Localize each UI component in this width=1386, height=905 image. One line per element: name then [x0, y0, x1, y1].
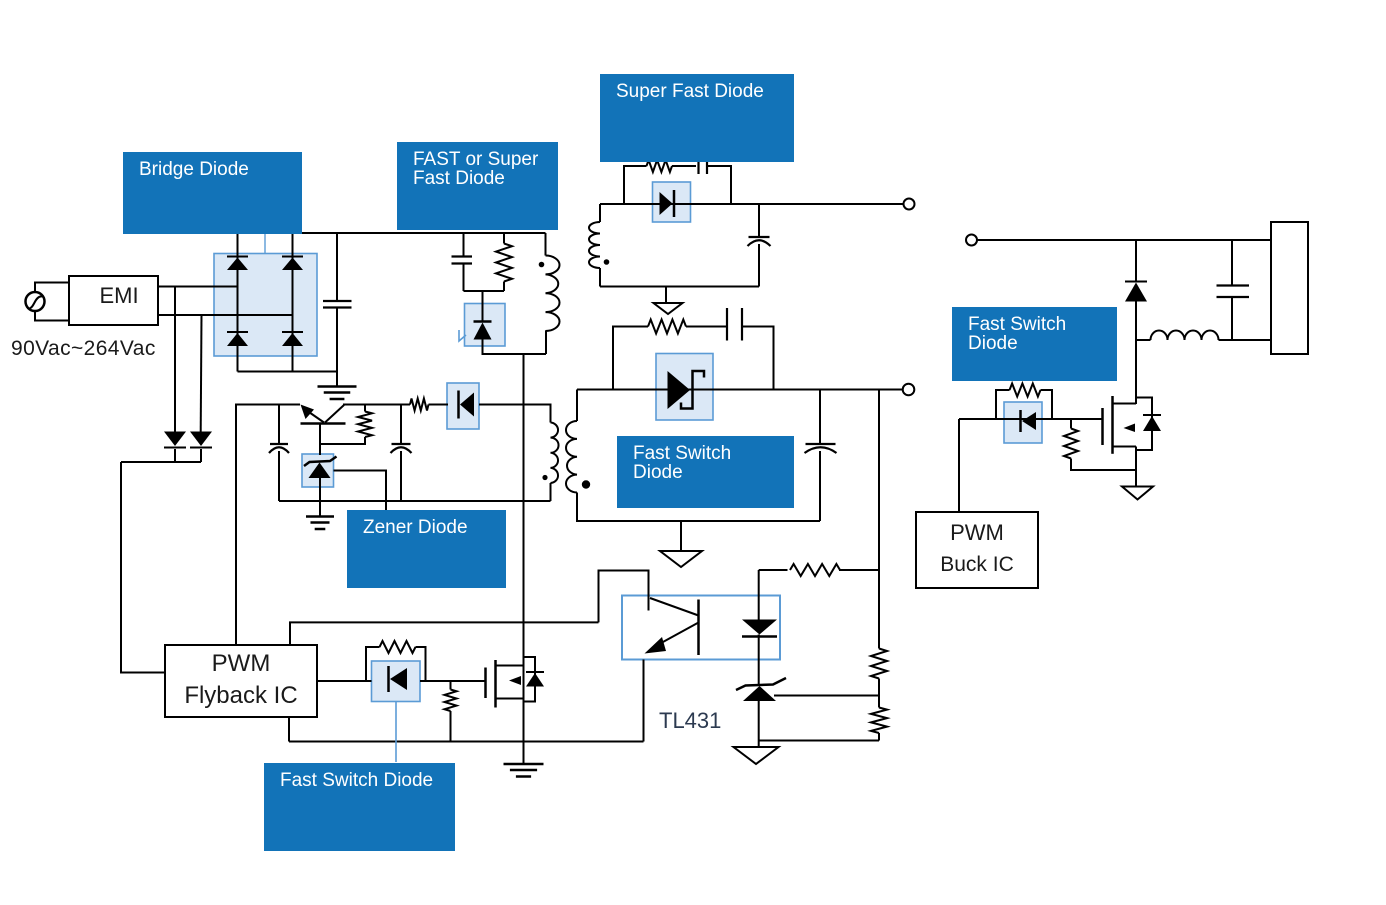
lower snubber cap C5: [726, 308, 728, 341]
gate resistor R6 bracket: [366, 647, 380, 681]
svg-text:Buck IC: Buck IC: [940, 553, 1014, 576]
bridge rectifier highlight box: [214, 254, 317, 357]
wire D5 stem: [174, 449, 176, 462]
svg-text:Fast Switch Diode: Fast Switch Diode: [280, 770, 433, 791]
lower out cap C6 stem2: [819, 451, 821, 521]
wire IC top pin2: [289, 622, 291, 645]
aux cap C8 stem2: [400, 451, 402, 501]
wire bridge right vertical: [292, 233, 294, 372]
wire opto Z-step: [599, 571, 649, 623]
diode D6 (down): [190, 432, 212, 447]
buck inductor L1 lead: [1136, 339, 1151, 341]
wire TL431 cathode stem: [758, 701, 760, 747]
wire buck IC vcc: [958, 419, 960, 512]
wire R8 to divider: [839, 569, 879, 571]
buck gate resistor R11: [1010, 384, 1041, 397]
aux diode D10: [457, 391, 460, 419]
transistor Q3 bar: [301, 422, 346, 425]
optocoupler U2 emitter line: [652, 623, 699, 649]
primary ground: [318, 385, 357, 388]
snubber cap C2 stem: [463, 233, 465, 256]
flyback gate diode highlight box: [372, 661, 421, 702]
optocoupler diode D12: [742, 620, 777, 635]
MOSFET Q1 channel bar: [494, 660, 497, 708]
pulldown resistor R7 stem: [450, 681, 452, 690]
wire buck diode stem: [1135, 240, 1137, 282]
bridge diode D2: [282, 256, 303, 258]
zener diode highlight box: [302, 454, 334, 487]
wire snubber to diode: [482, 291, 484, 322]
wire bottom rail (primary side): [289, 741, 644, 743]
aux cap C7 stem2: [278, 451, 280, 501]
ground arrow 4: [1122, 487, 1153, 500]
load block: [1271, 222, 1308, 354]
buck out cap C9: [1217, 284, 1250, 286]
bridge diode D4: [282, 331, 303, 333]
aux winding bottom lead: [550, 483, 552, 501]
snubber diode D7: [474, 320, 492, 323]
MOSFET Q2 drain lead: [1113, 403, 1137, 405]
aux winding T1c: [551, 423, 559, 484]
fast switch diode highlight box (secondary): [656, 354, 713, 421]
wire primary top lead: [545, 233, 547, 256]
wire primary bottom lead: [545, 331, 547, 355]
MOSFET Q1 gate bar: [484, 668, 487, 699]
label box Zener Diode: [347, 510, 506, 588]
svg-text:PWM: PWM: [212, 650, 271, 677]
pulldown resistor R7: [445, 690, 457, 712]
bridge diode D1: [227, 256, 248, 258]
secondary bottom lead: [577, 493, 820, 522]
upper secondary bottom lead: [599, 268, 601, 287]
wire bridge bottom: [238, 371, 338, 373]
upper secondary winding T1d: [589, 222, 600, 268]
wire D13 to switch node: [1135, 302, 1137, 397]
svg-text:PWM: PWM: [950, 520, 1004, 545]
wire feedback bottom rail: [759, 740, 879, 742]
optocoupler body box U2: [622, 596, 780, 660]
wire aux rail left corner: [236, 405, 300, 645]
label box Fast Switch Diode right: [952, 307, 1117, 381]
lower snubber resistor R3: [648, 320, 686, 334]
MOSFET Q1 body bracket: [524, 657, 536, 702]
ground arrow 1: [654, 303, 683, 314]
buck pulldown R12 stem2: [1071, 459, 1136, 471]
wire Q2 source down: [1135, 447, 1137, 487]
aux resistor R5 stem: [364, 405, 366, 412]
leader FAST artifact: [459, 330, 466, 341]
MOSFET Q2 body diode: [1143, 414, 1161, 416]
wire to primary ground: [336, 372, 338, 387]
svg-text:Diode: Diode: [633, 462, 683, 483]
aux cap C7 stem: [278, 405, 280, 444]
wire R9 to junction: [878, 679, 880, 696]
wire join below D5 D6: [121, 461, 201, 463]
secondary dot: [582, 480, 590, 488]
MOSFET Q2 body bracket: [1136, 398, 1152, 451]
upper snubber resistor R2: [647, 160, 673, 172]
ground arrow 2: [660, 551, 702, 567]
optocoupler U2 bar: [697, 600, 700, 656]
svg-text:FAST or Super: FAST or Super: [413, 149, 539, 170]
aux resistor R5 (vertical): [358, 412, 372, 438]
wire to ground arrow 1: [665, 287, 667, 303]
feedback resistor R8: [790, 564, 840, 576]
PWM Buck IC box: [916, 512, 1038, 588]
svg-text:EMI: EMI: [99, 283, 138, 308]
super fast diode highlight box: [653, 182, 691, 222]
optocoupler U2 LED line: [650, 598, 699, 616]
leader Bridge Diode: [264, 234, 266, 254]
wire lower output rail: [577, 389, 903, 391]
leader line to fast switch label: [395, 702, 397, 763]
divider resistor R10: [871, 708, 887, 734]
upper secondary winding lead: [599, 204, 601, 222]
flyback gate diode D11: [387, 666, 390, 692]
gate resistor R6 bracket2: [416, 647, 426, 681]
wire R5 bottom: [320, 437, 365, 444]
ground arrow 3: [734, 747, 779, 764]
buck diode D13: [1125, 281, 1147, 283]
upper snubber cap C3: [697, 158, 699, 174]
upper secondary dot: [604, 259, 610, 265]
aux resistor R4 (horizontal): [410, 399, 429, 411]
MOSFET Q1 drain lead: [496, 665, 524, 667]
wire R2 to C3: [672, 165, 696, 167]
wire TL431 ref: [774, 695, 879, 697]
wire Q3 base stem: [319, 424, 321, 456]
wire upper snubber left: [624, 166, 647, 204]
terminal buck input: [966, 235, 977, 246]
primary winding T1a: [546, 256, 560, 332]
aux cap C8: [392, 443, 411, 445]
svg-text:Flyback IC: Flyback IC: [184, 682, 297, 709]
zener diode ZD1: [304, 457, 337, 467]
bridge diode D3: [227, 331, 248, 333]
label box Super Fast Diode: [600, 74, 794, 162]
buck out cap C9 stem: [1231, 240, 1233, 286]
bulk capacitor C1: [323, 300, 352, 302]
lower out cap C6 stem: [819, 390, 821, 444]
label box Fast Switch Diode mid: [617, 436, 794, 508]
buck out cap C9 stem2: [1231, 297, 1233, 340]
svg-text:Super Fast Diode: Super Fast Diode: [616, 81, 764, 102]
wire opto bottom pin: [643, 660, 645, 742]
buck gate diode highlight box: [1004, 402, 1042, 443]
MOSFET Q1 source lead: [496, 698, 524, 700]
wire AC bottom to EMI: [35, 311, 69, 321]
secondary winding top lead: [576, 390, 578, 422]
wire L1 to load: [1219, 339, 1272, 341]
buck pulldown R12: [1064, 429, 1078, 459]
upper out cap C4 stem: [758, 204, 760, 237]
wire Q2 drain up: [1135, 396, 1137, 404]
wire C5 right: [742, 327, 774, 390]
wire down left side to PWM IC: [121, 462, 165, 673]
snubber diode highlight box: [465, 304, 506, 347]
wire D11 to gate: [420, 680, 485, 682]
svg-text:Zener Diode: Zener Diode: [363, 517, 468, 538]
svg-text:Fast Diode: Fast Diode: [413, 168, 505, 189]
svg-text:Fast Switch: Fast Switch: [968, 314, 1066, 335]
EMI filter block: [69, 276, 158, 325]
snubber cap C2 stem2: [463, 264, 465, 292]
MOSFET Q1 substrate arrow: [509, 676, 521, 685]
wire upper output rail: [600, 203, 903, 205]
wire zener right: [334, 471, 387, 512]
wire IC feedback top: [289, 621, 599, 623]
aux diode highlight box: [447, 383, 479, 429]
wire D6 stem: [200, 449, 202, 462]
aux winding dot: [542, 475, 547, 480]
super fast diode D8: [660, 192, 673, 215]
buck gate resistor R11 bracket2: [1041, 390, 1053, 419]
wire EMI out2 (neutral): [158, 314, 293, 316]
primary dot: [539, 262, 545, 268]
aux cap C8 stem: [400, 405, 402, 444]
aux winding top lead: [479, 405, 551, 423]
wire upper bottom rail: [600, 286, 759, 288]
wire branch down to D6: [200, 315, 203, 432]
snubber resistor R1 stem: [503, 233, 505, 244]
MOSFET Q2 substrate arrow: [1124, 424, 1136, 433]
divider resistor R9: [871, 649, 887, 679]
svg-text:TL431: TL431: [659, 708, 721, 733]
terminal output1: [904, 199, 915, 210]
label box Fast Switch Diode bottom: [264, 763, 455, 851]
wire AC top to EMI: [35, 283, 69, 293]
gate resistor R6: [380, 641, 416, 653]
svg-text:90Vac~264Vac: 90Vac~264Vac: [11, 337, 156, 360]
Q1 ground: [504, 763, 544, 766]
label box Bridge Diode: [123, 152, 302, 234]
wire zener stem: [319, 478, 321, 517]
MOSFET Q1 body diode: [526, 671, 544, 673]
wire Q1 source to ground: [523, 742, 525, 764]
fast switch diode D9: [668, 371, 691, 409]
MOSFET Q2 source lead: [1113, 446, 1137, 448]
terminal output2: [903, 384, 915, 396]
wire C3 right: [707, 166, 731, 204]
wire divider vertical: [878, 390, 880, 649]
wire feedback top: [759, 569, 788, 571]
wire TL431 chain mid: [758, 635, 760, 685]
wire IC right pin to D11: [317, 680, 372, 682]
buck inductor L1: [1151, 331, 1219, 341]
wire aux rail right: [343, 404, 410, 406]
wire aux bottom rail: [279, 500, 551, 502]
aux cap C7: [270, 443, 288, 445]
TL431 U3: [736, 678, 786, 690]
wire snubber bottom bracket: [464, 290, 505, 292]
transistor Q3 collector: [325, 405, 344, 423]
wire EMI out1 (line): [158, 286, 238, 288]
wire R3 to C5: [686, 326, 727, 328]
lower out cap C6: [806, 443, 836, 445]
wire drain vertical (primary to Q1): [523, 354, 525, 742]
upper out cap C4: [749, 236, 770, 238]
label box FAST or Super Fast Diode: [397, 142, 558, 230]
wire buck top rail: [977, 239, 1271, 241]
wire DC top rail: [238, 232, 546, 234]
MOSFET Q2 gate bar: [1101, 408, 1104, 445]
optocoupler U2 arrow: [645, 637, 667, 654]
wire TL431 chain top: [758, 570, 760, 620]
bulk capacitor C1 stem bottom: [336, 308, 338, 372]
wire IC bottom pin: [288, 717, 290, 742]
wire to ground arrow 2: [680, 521, 682, 551]
transistor Q3 emitter arrow: [306, 410, 324, 423]
snubber resistor R1 stem2: [503, 282, 505, 292]
PWM Flyback IC box: [165, 645, 317, 717]
bulk capacitor C1 stem top: [336, 233, 338, 301]
svg-text:Fast Switch: Fast Switch: [633, 443, 731, 464]
svg-text:Bridge Diode: Bridge Diode: [139, 159, 249, 180]
wire R4 to D10: [429, 404, 449, 406]
snubber resistor R1: [496, 244, 512, 282]
zener ground: [306, 515, 334, 518]
buck gate resistor R11 bracket: [996, 390, 1010, 419]
AC source V1: [26, 292, 45, 311]
pulldown resistor R7 stem2: [450, 711, 452, 742]
wire lower snubber left: [613, 327, 648, 390]
wire D7 to primary bottom: [483, 340, 547, 355]
MOSFET Q2 channel bar: [1111, 396, 1114, 454]
svg-text:Diode: Diode: [968, 333, 1018, 354]
upper out cap C4 stem2: [758, 244, 760, 287]
divider resistor R10 stem: [878, 696, 880, 708]
wire buck gate: [959, 418, 1103, 420]
wire bridge left vertical: [237, 233, 239, 372]
snubber cap C2: [452, 255, 473, 257]
buck gate diode D14: [1019, 410, 1022, 432]
secondary winding T1b: [566, 421, 577, 493]
buck pulldown R12 stem: [1070, 419, 1072, 429]
wire R10 bottom: [878, 733, 880, 741]
diode D5 (down): [164, 432, 186, 447]
wire branch down to D5: [174, 287, 176, 432]
